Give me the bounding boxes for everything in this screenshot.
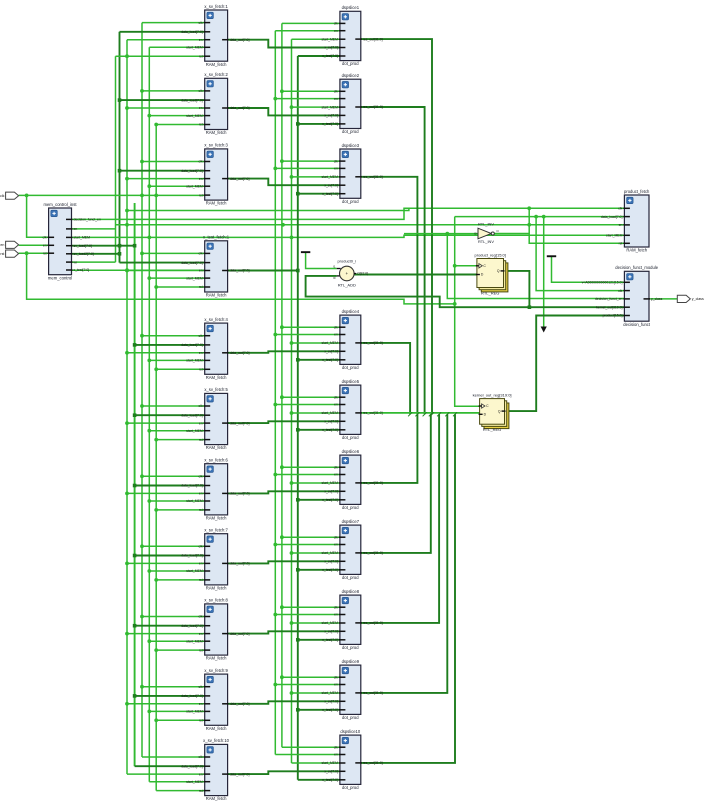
svg-text:dot_prod: dot_prod (342, 61, 359, 66)
svg-text:dspslice9: dspslice9 (342, 659, 360, 664)
svg-text:RAM_fetch: RAM_fetch (206, 796, 227, 801)
svg-text:y_class: y_class (692, 297, 704, 301)
svg-text:O[31:0]: O[31:0] (357, 272, 368, 276)
svg-text:res_out[31:0]: res_out[31:0] (363, 761, 383, 765)
svg-text:clk: clk (618, 289, 622, 293)
svg-text:dot_prod: dot_prod (342, 575, 359, 580)
svg-text:en: en (334, 97, 338, 101)
svg-text:res_out[31:0]: res_out[31:0] (363, 411, 383, 415)
svg-text:rst: rst (199, 368, 203, 372)
svg-text:y_class: y_class (651, 297, 663, 301)
svg-text:data_load[7:0]: data_load[7:0] (181, 624, 203, 628)
svg-text:start_MEM: start_MEM (186, 639, 203, 643)
svg-text:product_reg[15:0]: product_reg[15:0] (475, 252, 506, 257)
svg-text:RAM_fetch: RAM_fetch (206, 293, 227, 298)
svg-text:clk: clk (334, 90, 338, 94)
svg-text:x_sv_fetch:9: x_sv_fetch:9 (204, 668, 228, 673)
svg-text:x_test[7:0]: x_test[7:0] (322, 358, 338, 362)
svg-text:clk: clk (199, 545, 203, 549)
svg-text:clk: clk (334, 22, 338, 26)
svg-text:x_sv_fetch:2: x_sv_fetch:2 (204, 72, 228, 77)
svg-text:en: en (199, 702, 203, 706)
svg-text:data_out[7:0]: data_out[7:0] (230, 269, 250, 273)
svg-text:clk: clk (199, 252, 203, 256)
svg-text:en: en (199, 562, 203, 566)
svg-text:RTL_REG: RTL_REG (483, 427, 501, 432)
svg-text:start_MEM: start_MEM (322, 175, 339, 179)
svg-text:start_MEM: start_MEM (606, 234, 623, 238)
svg-text:RAM_fetch: RAM_fetch (206, 445, 227, 450)
svg-text:x_sv[7:0]: x_sv[7:0] (324, 490, 338, 494)
svg-text:dot_prod: dot_prod (342, 715, 359, 720)
svg-text:dspslice7: dspslice7 (342, 519, 360, 524)
svg-text:RAM_fetch: RAM_fetch (206, 130, 227, 135)
svg-text:data_load[7:0]: data_load[7:0] (181, 694, 203, 698)
svg-text:start_MEM: start_MEM (186, 184, 203, 188)
svg-text:data_load[7:0]: data_load[7:0] (181, 261, 203, 265)
svg-text:mem_control_inst: mem_control_inst (43, 202, 77, 207)
svg-text:clk: clk (334, 535, 338, 539)
svg-text:x_sv[7:0]: x_sv[7:0] (324, 46, 338, 50)
svg-text:rst: rst (199, 508, 203, 512)
svg-text:start_MEM: start_MEM (322, 481, 339, 485)
svg-text:en: en (334, 29, 338, 33)
svg-text:en: en (334, 543, 338, 547)
svg-text:clk: clk (334, 159, 338, 163)
svg-text:data_out[7:0]: data_out[7:0] (230, 562, 250, 566)
svg-text:start_MEM: start_MEM (186, 499, 203, 503)
svg-text:kernel_out_reg[319:0]: kernel_out_reg[319:0] (473, 392, 512, 397)
svg-text:RTL_INV: RTL_INV (478, 239, 494, 244)
svg-text:start_MEM: start_MEM (186, 276, 203, 280)
svg-text:dot_prod: dot_prod (342, 785, 359, 790)
svg-text:start_MEM: start_MEM (186, 780, 203, 784)
svg-text:x_sv[7:0]: x_sv[7:0] (324, 350, 338, 354)
svg-text:clk: clk (199, 160, 203, 164)
svg-text:RAM_fetch: RAM_fetch (206, 656, 227, 661)
svg-text:x_sv[7:0]: x_sv[7:0] (324, 420, 338, 424)
svg-text:clk: clk (334, 745, 338, 749)
svg-text:product_fetch: product_fetch (624, 189, 650, 194)
svg-text:I1: I1 (333, 265, 336, 269)
svg-text:x_test[7:0]: x_test[7:0] (322, 498, 338, 502)
svg-text:data_load[7:0]: data_load[7:0] (181, 484, 203, 488)
svg-text:mem_control: mem_control (48, 275, 72, 280)
svg-text:clk: clk (199, 755, 203, 759)
svg-text:data_load[7:0]: data_load[7:0] (181, 764, 203, 768)
svg-text:x_sv[7:0]: x_sv[7:0] (324, 114, 338, 118)
svg-text:clk: clk (199, 334, 203, 338)
svg-text:start_MEM: start_MEM (322, 37, 339, 41)
svg-text:data_load[7:0]: data_load[7:0] (181, 30, 203, 34)
svg-text:dspslice1: dspslice1 (342, 5, 360, 10)
svg-text:data_out[7:0]: data_out[7:0] (230, 492, 250, 496)
svg-text:rst: rst (199, 193, 203, 197)
svg-text:x_test[7:0]: x_test[7:0] (74, 268, 90, 272)
svg-text:clk: clk (334, 325, 338, 329)
svg-text:en: en (199, 421, 203, 425)
svg-text:start_MEM: start_MEM (322, 691, 339, 695)
svg-text:x_test[7:0]: x_test[7:0] (322, 122, 338, 126)
svg-text:res_out[31:0]: res_out[31:0] (363, 621, 383, 625)
svg-text:clk: clk (199, 404, 203, 408)
svg-text:en: en (334, 473, 338, 477)
svg-text:clk: clk (334, 605, 338, 609)
svg-text:data_out[7:0]: data_out[7:0] (230, 702, 250, 706)
svg-text:dspslice8: dspslice8 (342, 589, 360, 594)
svg-text:rst: rst (199, 578, 203, 582)
svg-text:en: en (334, 167, 338, 171)
svg-text:start_MEM: start_MEM (322, 761, 339, 765)
svg-text:RAM_fetch: RAM_fetch (626, 248, 647, 253)
svg-text:dspslice6: dspslice6 (342, 449, 360, 454)
svg-text:en: en (334, 683, 338, 687)
svg-text:data_load[7:0]: data_load[7:0] (181, 343, 203, 347)
svg-text:clk: clk (199, 685, 203, 689)
svg-text:dot_prod: dot_prod (342, 645, 359, 650)
svg-text:x_test_fetch:1: x_test_fetch:1 (203, 235, 230, 240)
svg-text:en: en (334, 753, 338, 757)
svg-text:v<A00000000000121[15:0]: v<A00000000000121[15:0] (582, 281, 623, 285)
svg-text:Q: Q (498, 409, 501, 413)
svg-text:start_MEM: start_MEM (186, 569, 203, 573)
svg-text:clk: clk (334, 395, 338, 399)
svg-text:+: + (345, 271, 348, 276)
svg-text:data_load[7:0]: data_load[7:0] (601, 215, 623, 219)
svg-text:dot_prod: dot_prod (342, 435, 359, 440)
svg-text:RTL_ADD: RTL_ADD (338, 283, 356, 288)
svg-text:rst: rst (619, 242, 623, 246)
svg-text:data_out[7:0]: data_out[7:0] (230, 177, 250, 181)
svg-text:en: en (619, 223, 623, 227)
svg-text:RTL_REG: RTL_REG (481, 290, 499, 295)
svg-text:RAM_fetch: RAM_fetch (206, 201, 227, 206)
svg-text:res_out[31:0]: res_out[31:0] (363, 341, 383, 345)
svg-text:RAM_fetch: RAM_fetch (206, 586, 227, 591)
svg-text:RAM_fetch: RAM_fetch (206, 62, 227, 67)
svg-text:rst: rst (43, 251, 47, 255)
svg-text:clk: clk (618, 207, 622, 211)
svg-text:sv_load2[7:0]: sv_load2[7:0] (74, 252, 94, 256)
svg-text:data_out[7:0]: data_out[7:0] (230, 106, 250, 110)
svg-text:product0_i: product0_i (337, 259, 356, 264)
svg-text:en: en (74, 227, 78, 231)
svg-text:product[15:0]: product[15:0] (603, 314, 623, 318)
svg-text:x_test[7:0]: x_test[7:0] (322, 568, 338, 572)
svg-text:dspslice4: dspslice4 (342, 309, 360, 314)
svg-text:I0: I0 (474, 232, 477, 236)
svg-text:en: en (334, 403, 338, 407)
svg-text:x_test[7:0]: x_test[7:0] (322, 192, 338, 196)
svg-text:en: en (199, 772, 203, 776)
svg-text:x_test[7:0]: x_test[7:0] (322, 708, 338, 712)
svg-text:start_MEM: start_MEM (186, 359, 203, 363)
svg-text:res_out[31:0]: res_out[31:0] (363, 175, 383, 179)
svg-text:start_MEM: start_MEM (186, 114, 203, 118)
svg-text:x_sv_fetch:4: x_sv_fetch:4 (204, 317, 228, 322)
svg-text:data_out[7:0]: data_out[7:0] (230, 772, 250, 776)
svg-text:en: en (199, 492, 203, 496)
svg-text:en: en (199, 632, 203, 636)
svg-text:rst: rst (199, 438, 203, 442)
svg-text:start_MEM: start_MEM (186, 710, 203, 714)
svg-text:data_load[7:0]: data_load[7:0] (181, 554, 203, 558)
svg-text:start_MEM: start_MEM (186, 429, 203, 433)
svg-text:RAM_fetch: RAM_fetch (206, 726, 227, 731)
svg-text:x_sv[7:0]: x_sv[7:0] (324, 183, 338, 187)
svg-text:rst: rst (199, 54, 203, 58)
svg-text:x_sv_fetch:3: x_sv_fetch:3 (204, 143, 228, 148)
svg-text:clk: clk (334, 465, 338, 469)
svg-text:start_MEM: start_MEM (322, 105, 339, 109)
svg-text:x_sv_fetch:1: x_sv_fetch:1 (204, 4, 228, 9)
svg-text:en: en (0, 243, 4, 247)
svg-text:x_sv_fetch:7: x_sv_fetch:7 (204, 528, 228, 533)
svg-text:x_sv[7:0]: x_sv[7:0] (324, 700, 338, 704)
svg-text:rst: rst (199, 789, 203, 793)
svg-text:start_MEM: start_MEM (322, 411, 339, 415)
svg-text:dot_prod: dot_prod (342, 365, 359, 370)
svg-text:x_sv_fetch:6: x_sv_fetch:6 (204, 458, 228, 463)
svg-text:en: en (199, 269, 203, 273)
svg-text:dot_prod: dot_prod (342, 129, 359, 134)
svg-text:x_sv_fetch:8: x_sv_fetch:8 (204, 598, 228, 603)
svg-text:x_sv_fetch:5: x_sv_fetch:5 (204, 387, 228, 392)
svg-text:en: en (43, 244, 47, 248)
svg-text:RAM_fetch: RAM_fetch (206, 516, 227, 521)
svg-text:start_MEM: start_MEM (322, 341, 339, 345)
svg-text:dspslice5: dspslice5 (342, 379, 360, 384)
svg-text:data_load[7:0]: data_load[7:0] (181, 169, 203, 173)
svg-text:rst: rst (0, 252, 4, 256)
svg-text:rst: rst (199, 285, 203, 289)
svg-text:decision_funct_module: decision_funct_module (615, 265, 659, 270)
svg-text:en: en (199, 38, 203, 42)
svg-text:rst: rst (199, 648, 203, 652)
svg-text:I0: I0 (333, 276, 336, 280)
svg-text:x_test[7:0]: x_test[7:0] (322, 638, 338, 642)
svg-text:clk: clk (199, 89, 203, 93)
svg-text:RAM_fetch: RAM_fetch (206, 375, 227, 380)
svg-text:clk: clk (334, 675, 338, 679)
svg-text:dspslice10: dspslice10 (340, 729, 360, 734)
svg-text:res_out[31:0]: res_out[31:0] (363, 105, 383, 109)
svg-text:dspslice3: dspslice3 (342, 143, 360, 148)
svg-text:start_MEM: start_MEM (322, 621, 339, 625)
svg-text:dot_prod: dot_prod (342, 199, 359, 204)
svg-text:start_MEM: start_MEM (322, 551, 339, 555)
svg-text:dot_prod: dot_prod (342, 505, 359, 510)
svg-text:Q: Q (497, 269, 500, 273)
svg-text:rst: rst (199, 123, 203, 127)
svg-text:x_test[7:0]: x_test[7:0] (322, 54, 338, 58)
svg-text:en: en (199, 351, 203, 355)
svg-text:en: en (334, 333, 338, 337)
svg-text:data_load[7:0]: data_load[7:0] (181, 413, 203, 417)
svg-text:RTL_INV: RTL_INV (478, 222, 494, 227)
svg-text:x_sv[7:0]: x_sv[7:0] (324, 560, 338, 564)
svg-text:rst: rst (199, 719, 203, 723)
svg-text:clk: clk (199, 475, 203, 479)
svg-text:decision_funct_en: decision_funct_en (74, 218, 101, 222)
svg-text:x_test[7:0]: x_test[7:0] (322, 778, 338, 782)
svg-text:data_out[7:0]: data_out[7:0] (230, 632, 250, 636)
svg-text:sv_load[7:0]: sv_load[7:0] (74, 244, 92, 248)
svg-text:data_out[7:0]: data_out[7:0] (230, 38, 250, 42)
svg-text:en: en (199, 106, 203, 110)
svg-text:x_sv[7:0]: x_sv[7:0] (324, 770, 338, 774)
svg-text:start_MEM: start_MEM (186, 46, 203, 50)
svg-text:data_out[7:0]: data_out[7:0] (230, 351, 250, 355)
svg-text:clk: clk (199, 21, 203, 25)
svg-text:clk: clk (199, 615, 203, 619)
svg-text:decision_funct_en: decision_funct_en (595, 297, 622, 301)
svg-text:x_test[7:0]: x_test[7:0] (322, 428, 338, 432)
svg-text:data_load[7:0]: data_load[7:0] (181, 98, 203, 102)
svg-text:en: en (199, 177, 203, 181)
svg-text:x_sv_fetch:10: x_sv_fetch:10 (203, 738, 230, 743)
svg-text:en: en (334, 613, 338, 617)
svg-text:dspslice2: dspslice2 (342, 73, 360, 78)
svg-text:res_out[31:0]: res_out[31:0] (363, 551, 383, 555)
svg-text:clk: clk (0, 194, 5, 198)
svg-text:res_out[31:0]: res_out[31:0] (363, 691, 383, 695)
svg-text:kernel_out[319:0]: kernel_out[319:0] (596, 305, 622, 309)
svg-text:x_sv[7:0]: x_sv[7:0] (324, 630, 338, 634)
svg-text:data_out[7:0]: data_out[7:0] (230, 421, 250, 425)
svg-text:clk: clk (42, 236, 46, 240)
svg-text:start_MEM: start_MEM (74, 236, 91, 240)
svg-text:res_out[31:0]: res_out[31:0] (363, 37, 383, 41)
svg-text:res_out[31:0]: res_out[31:0] (363, 481, 383, 485)
svg-text:decision_funct: decision_funct (623, 322, 651, 327)
